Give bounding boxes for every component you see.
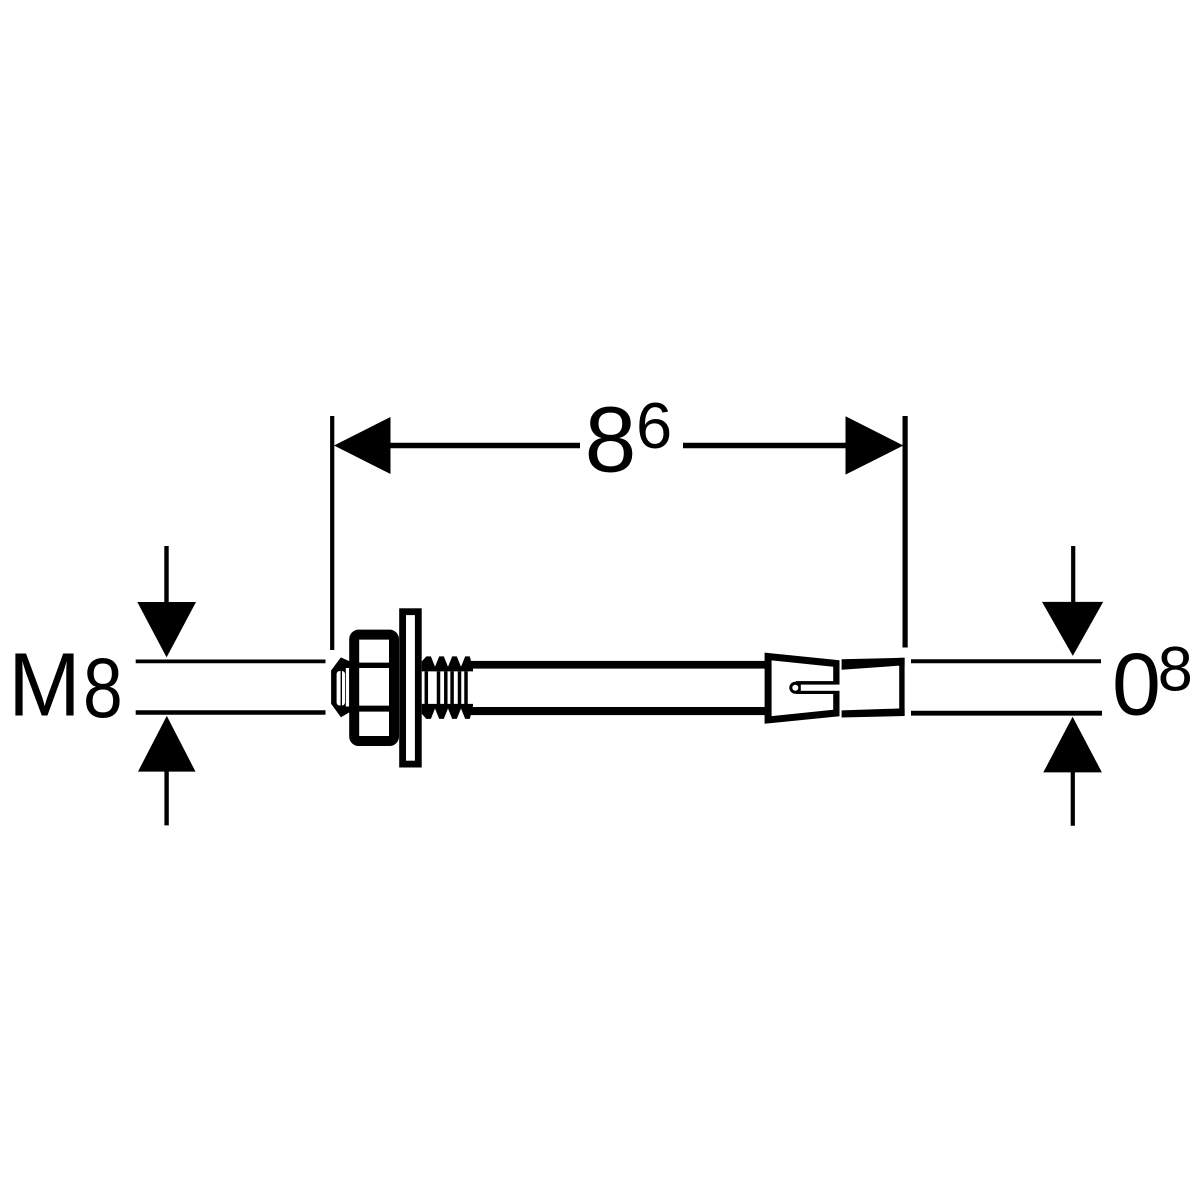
shank bottom edge <box>470 707 766 715</box>
extension line right of dimension 8^6 <box>902 416 907 648</box>
leader line top right (0^8) <box>911 659 1101 663</box>
washer (side view) <box>403 612 419 764</box>
leader line top left (M8) <box>136 660 326 664</box>
arrow up of 0^8 dimension <box>1043 717 1102 826</box>
arrow down of 0^8 dimension <box>1042 546 1103 656</box>
cone end of bolt (right end) <box>842 658 905 718</box>
dimension line 8^6 right segment <box>683 443 870 448</box>
leader line bottom right (0^8) <box>911 711 1102 716</box>
shank top edge <box>470 661 766 669</box>
extension line left of dimension 8^6 <box>330 416 334 650</box>
hex nut (side view) <box>354 635 394 741</box>
svg-text:8: 8 <box>83 640 123 735</box>
expansion clip (flared sleeve) <box>765 653 840 724</box>
dimension line 8^6 left segment <box>360 443 580 448</box>
svg-text:6: 6 <box>636 389 672 462</box>
arrowhead right of dimension 8^6 <box>846 416 904 474</box>
svg-text:0: 0 <box>1112 635 1161 734</box>
svg-text:8: 8 <box>585 388 637 492</box>
clip slot with round hole <box>789 681 842 694</box>
arrow down of M8 dimension <box>137 546 196 657</box>
svg-text:8: 8 <box>1158 634 1193 704</box>
leader line bottom left (M8) <box>136 710 326 715</box>
bolt threaded tip (left end of anchor) <box>331 657 350 717</box>
thread profile top band <box>422 656 473 671</box>
thread profile bottom band <box>422 704 473 719</box>
arrowhead left of dimension 8^6 <box>334 417 391 474</box>
svg-text:M: M <box>8 634 80 735</box>
arrow up of M8 dimension <box>138 716 196 826</box>
thread flank lines <box>426 671 466 704</box>
